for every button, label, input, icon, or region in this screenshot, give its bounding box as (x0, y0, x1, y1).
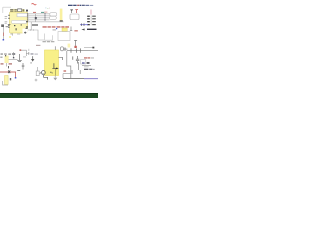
label box right mid (70, 14, 79, 20)
wire bus from U1 to right (28, 14, 64, 30)
regulator U2 small yellow (5, 56, 9, 63)
red text PICkit (84, 57, 87, 58)
bottom rail (63, 78, 84, 80)
ground under U3 (54, 76, 56, 78)
left small component D1 (1, 24, 4, 27)
red junction (74, 46, 76, 48)
U3 inner faint stem (55, 69, 57, 75)
U1 pin numbers faint (5, 16, 9, 27)
blue wire to connector (80, 24, 88, 26)
dashed net row (43, 40, 55, 43)
U3 left pin dashes (50, 72, 53, 73)
R cap (60, 20, 63, 21)
red text under U2 (1, 63, 13, 64)
sheet border corner (3, 7, 11, 13)
power flag VDD (dark) (70, 10, 73, 13)
bottom rail purple (84, 78, 98, 80)
U1 body notch (23, 29, 28, 34)
power flag VPP (red) (75, 10, 78, 13)
pink net wire right top (90, 10, 92, 15)
red power wire bottom left (0, 71, 16, 73)
blue marks (82, 62, 85, 63)
U3 top pin (54, 46, 56, 50)
green taskbar (0, 93, 98, 98)
small marks left of cap (72, 56, 73, 59)
red tap (20, 49, 22, 51)
cross mark (35, 79, 38, 82)
bus pin end ticks (44, 13, 45, 20)
IC U3 big yellow (45, 50, 59, 76)
junction dot (56, 68, 58, 69)
relay outline box (58, 32, 70, 41)
rail ticks (71, 48, 81, 52)
U1 inner label box 2 (12, 20, 27, 23)
red text row mid (43, 26, 70, 28)
faint pastel dots (45, 6, 46, 9)
text row left (1, 53, 16, 55)
blue junction dot (56, 28, 57, 29)
net name left edge (0, 57, 2, 58)
blue dot (3, 39, 5, 41)
faint label (53, 29, 57, 30)
resistor bar R vertical yellow (60, 9, 63, 21)
IC U1 microcontroller (10, 12, 28, 33)
title text top right (68, 5, 93, 6)
U3 inner net T (52, 63, 58, 68)
marks above (17, 70, 20, 71)
U1 left pins (8, 15, 11, 25)
tick left (8, 66, 9, 68)
wire stub x13 (13, 52, 15, 57)
faint text below U1 (17, 33, 20, 36)
net name dashes right (84, 69, 88, 70)
vertical wire x26 (21, 50, 26, 56)
white box right (81, 60, 86, 64)
tiny red label 2 (44, 12, 47, 13)
red wire down (15, 72, 17, 77)
junction cross below U1 (24, 32, 26, 34)
main rail (67, 50, 98, 52)
text column left-center (27, 52, 30, 54)
transistor Q1 at U3 corner (40, 71, 48, 80)
junction X (8, 70, 10, 73)
small text under bus (32, 24, 38, 25)
wire corner center (28, 29, 44, 40)
ground symbol triangle center (31, 59, 34, 62)
net label box A (50, 13, 57, 16)
wire L-shape right-bottom (67, 51, 80, 79)
red label (74, 30, 77, 31)
faint yellow at crystal (68, 44, 71, 48)
faint text small center (36, 45, 40, 46)
mark near D2 (10, 78, 11, 80)
blue dot (15, 77, 16, 79)
U1 bottom pin (16, 28, 17, 30)
tiny yellow (9, 36, 11, 38)
ground left (17, 54, 22, 62)
capacitor C5 (76, 56, 79, 64)
U1 inner label box 1 (17, 13, 27, 16)
wire corner at D2 (3, 81, 8, 85)
U1 right pin stubs (27, 14, 29, 21)
value label row above U1 (10, 9, 28, 12)
connector body line (90, 15, 92, 25)
red label top center (32, 3, 37, 4)
faint text below (84, 66, 89, 67)
connector J1 pins (87, 16, 90, 26)
stub net with diamond (84, 47, 93, 49)
U1 interior pin dot (14, 25, 15, 26)
resistor box center-bottom (36, 71, 39, 76)
net wire under U3 right (63, 74, 71, 79)
crystal Y1 (61, 47, 68, 51)
bus junction dark (35, 17, 37, 19)
yellow block K1 (62, 28, 67, 31)
component box center (45, 34, 53, 41)
capacitor C2 (22, 63, 25, 70)
wire down with red segment (2, 27, 4, 40)
tiny teal label on bus (41, 12, 44, 13)
net line (82, 65, 91, 67)
arrow symbol (81, 29, 84, 31)
resistor R9 label red (64, 70, 67, 71)
net label box B (50, 16, 57, 19)
U1 right edge marks (26, 21, 29, 29)
vertical into rail (74, 40, 77, 46)
tiny red label on bus (33, 12, 36, 13)
diode D2 yellow block bottom left (5, 76, 9, 85)
wire stub (70, 27, 72, 31)
wire from U2 (9, 59, 18, 61)
corner wire from U3 right (59, 57, 63, 60)
thick dark net top right (87, 29, 97, 30)
